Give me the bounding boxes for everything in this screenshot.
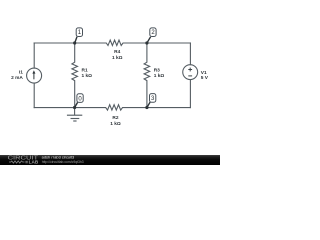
svg-text:5 V: 5 V: [201, 75, 209, 81]
svg-text:LAB: LAB: [29, 159, 39, 164]
svg-text:R1: R1: [82, 68, 88, 74]
svg-text:R3: R3: [154, 68, 160, 74]
svg-text:1 kΩ: 1 kΩ: [82, 73, 93, 79]
svg-text:1 kΩ: 1 kΩ: [112, 55, 123, 61]
svg-text:R4: R4: [114, 49, 120, 55]
svg-text:1 kΩ: 1 kΩ: [154, 73, 165, 79]
svg-text:http://circuitlab.com/c9qt3h3: http://circuitlab.com/c9qt3h3: [42, 160, 84, 164]
svg-text:1 kΩ: 1 kΩ: [110, 121, 121, 127]
svg-text:adsh / lab3 circuit3: adsh / lab3 circuit3: [42, 155, 74, 159]
svg-text:R2: R2: [112, 115, 118, 121]
svg-text:2 mA: 2 mA: [11, 75, 23, 81]
svg-text:I1: I1: [19, 70, 23, 76]
